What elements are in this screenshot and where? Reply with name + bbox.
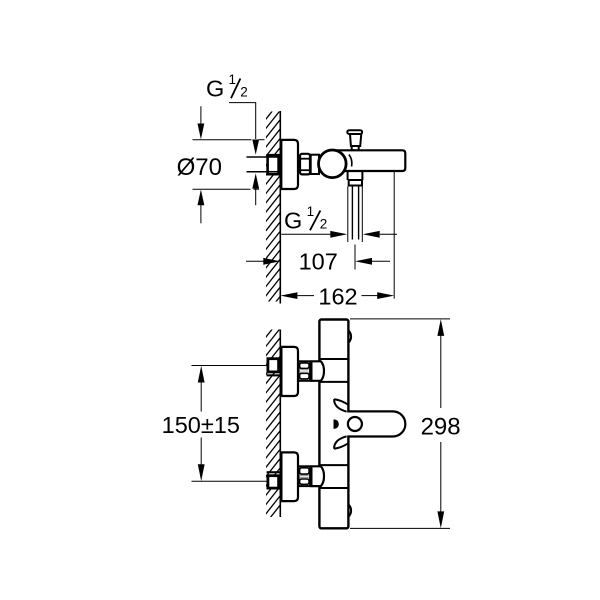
- upper wall union square (plan): [268, 359, 279, 372]
- hex nut (side view): [300, 154, 310, 175]
- G1/2 top arrow up: [252, 173, 259, 188]
- body segment line 1: [319, 358, 348, 360]
- svg-text:2: 2: [320, 217, 328, 232]
- 150±15 dimension line and arrows: [198, 366, 205, 383]
- leader line G1/2 top: [229, 103, 256, 139]
- upper inlet boss (plan): [311, 361, 324, 381]
- body segment line 3: [319, 464, 348, 466]
- connecting sleeve (side view): [311, 155, 319, 174]
- shower outlet (side view): [347, 171, 349, 180]
- pipe lines through union: [267, 156, 279, 158]
- lower escutcheon (plan): [281, 452, 298, 501]
- body segment line 2: [319, 381, 348, 383]
- svg-text:150±15: 150±15: [162, 412, 240, 438]
- lower spout leaf: [334, 436, 348, 448]
- wall hatching (side view): [262, 99, 282, 319]
- svg-text:298: 298: [421, 414, 461, 441]
- diverter knob cap: [347, 130, 362, 134]
- Ø70 extension line top: [193, 139, 265, 141]
- label G 1/2 (top): [206, 72, 248, 102]
- escutcheon (side view): [281, 140, 298, 189]
- svg-text:G: G: [284, 207, 302, 233]
- svg-text:Ø70: Ø70: [177, 154, 222, 181]
- outlet centre extension line: [354, 245, 356, 270]
- G1/2 top arrow down: [252, 140, 259, 155]
- lower inlet boss (plan): [311, 466, 324, 486]
- lever mark (D shape): [334, 419, 339, 429]
- spout (plan view): [346, 413, 393, 436]
- label G 1/2 (outlet): [284, 204, 327, 233]
- 107 dimension: [246, 260, 264, 262]
- Ø70 extension line bottom: [193, 188, 260, 190]
- upper spout leaf: [334, 399, 348, 411]
- hex nut facet lines: [300, 158, 311, 160]
- hose lines: [351, 186, 353, 240]
- 298 extension lines: [350, 318, 450, 320]
- outlet band: [349, 180, 362, 186]
- svg-text:162: 162: [318, 283, 357, 309]
- outlet extension lines: [347, 187, 349, 243]
- inlet pipe (side view): [247, 157, 269, 172]
- svg-text:G: G: [206, 76, 224, 102]
- lower union nut (plan): [299, 466, 311, 486]
- G1/2 outlet dimension line: [281, 233, 331, 235]
- upper union nut (plan): [299, 361, 311, 381]
- 150±15 extension lines: [192, 365, 267, 367]
- diverter knob base: [352, 146, 359, 151]
- svg-text:1: 1: [229, 72, 237, 87]
- wall surface line (plan view): [279, 330, 281, 518]
- 162 dimension: [280, 292, 297, 299]
- svg-text:1: 1: [307, 204, 315, 219]
- 298 dimension line and arrows: [437, 319, 444, 336]
- upper escutcheon (plan): [281, 347, 298, 396]
- spout outlet circle: [348, 417, 362, 431]
- wall union square (side view): [268, 155, 279, 174]
- diverter knob neck: [350, 134, 361, 146]
- Ø70 arrow up (pointing down to top line): [200, 106, 202, 124]
- body segment line 4: [319, 487, 348, 489]
- knob contour arc on body: [349, 155, 352, 167]
- mixer body column (plan view): [319, 320, 348, 529]
- svg-text:107: 107: [299, 248, 338, 274]
- spout end extension line: [393, 172, 395, 299]
- wall hatching (plan view): [262, 317, 282, 528]
- svg-text:2: 2: [240, 85, 248, 100]
- knob end circle bottom (plan): [335, 502, 352, 519]
- mixer body (side view): [330, 150, 405, 171]
- Ø70 arrow bottom (pointing up to bottom line): [198, 190, 205, 206]
- knob end circle top (plan): [335, 328, 352, 345]
- wall surface line (side view): [279, 111, 281, 304]
- control knob circle (side view): [319, 150, 347, 178]
- lower wall union square (plan): [268, 476, 279, 488]
